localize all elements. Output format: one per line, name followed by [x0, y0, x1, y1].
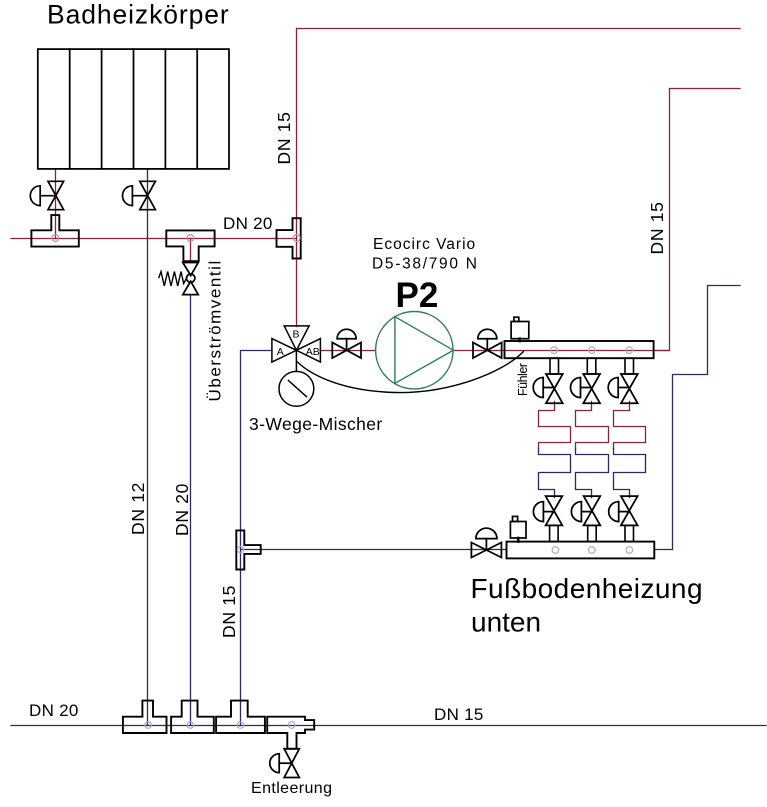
wire blue bottom DN15 horizontal — [11, 725, 766, 727]
svg-text:B: B — [293, 328, 300, 340]
valve upper loop 2 with dome — [571, 374, 601, 403]
wire blue mixer A feed with corner — [241, 351, 272, 726]
tee T4 DN15 with right stub — [236, 530, 260, 569]
valve upper loop 3 with dome — [608, 374, 638, 403]
svg-text:DN 15: DN 15 — [434, 705, 484, 724]
mixer actuator dial — [279, 371, 314, 406]
pipe stub lower manifold 2 — [588, 525, 597, 541]
valve drain Entleerung with dome — [270, 749, 299, 778]
pipe stub upper manifold 2 — [587, 358, 596, 374]
svg-text:DN 20: DN 20 — [172, 483, 192, 536]
valve upper loop 1 with dome — [533, 374, 563, 403]
wire red overflow stub — [190, 239, 192, 263]
valve pump line left with dome actuator — [332, 329, 361, 358]
pipe stub lower manifold 1 — [550, 525, 559, 541]
svg-text:Ecocirc Vario: Ecocirc Vario — [373, 236, 476, 253]
tee T6 bottom DN20 up stub — [171, 701, 214, 733]
mixer 3-Wege-Mischer — [272, 326, 321, 372]
wire blue radiator return drop DN12 — [147, 169, 149, 726]
wire blue tee to lower manifold — [241, 549, 507, 551]
wire heating loop 1 blue part — [539, 449, 571, 498]
svg-text:3-Wege-Mischer: 3-Wege-Mischer — [249, 414, 383, 434]
tee T8 drain with down stub and reducer — [267, 717, 314, 749]
pipe stub lower manifold 3 — [625, 525, 634, 541]
wire red pump to manifold — [453, 350, 669, 352]
pipe stub upper manifold 1 — [550, 358, 559, 374]
radiator Badheizkörper — [38, 49, 229, 169]
node T4 center — [237, 546, 243, 552]
svg-text:Entleerung: Entleerung — [251, 780, 332, 797]
tee T3 DN15 with left stub — [277, 218, 301, 258]
tee T2 DN20 with down stub — [166, 230, 214, 261]
svg-text:unten: unten — [471, 607, 541, 638]
svg-text:AB: AB — [306, 346, 320, 358]
wire blue right return path — [654, 286, 740, 550]
svg-text:Überströmventil: Überströmventil — [206, 259, 225, 401]
pump P2 impeller triangle — [395, 317, 453, 384]
wire heating loop 3 red part — [614, 401, 646, 448]
node manifold lower port 3 — [626, 547, 633, 554]
svg-text:DN 20: DN 20 — [223, 214, 273, 233]
sensor Fühler upper — [511, 317, 529, 341]
svg-text:DN 15: DN 15 — [647, 201, 667, 254]
valve overflow Überströmventil — [159, 263, 198, 295]
valve radiator supply — [30, 181, 63, 209]
node manifold lower port 2 — [589, 547, 596, 554]
wire red pump line mixer to pump — [320, 350, 375, 352]
svg-text:DN 12: DN 12 — [128, 482, 148, 535]
valve lower manifold inlet with dome — [471, 528, 501, 557]
node T8 center — [288, 722, 295, 729]
wire blue overflow valve drop DN20 — [190, 295, 192, 726]
svg-text:A: A — [277, 346, 284, 358]
pipe stub upper manifold 3 — [625, 358, 634, 374]
svg-text:D5-38/790 N: D5-38/790 N — [372, 256, 479, 273]
svg-text:DN 15: DN 15 — [219, 585, 239, 638]
valve lower loop 2 with dome — [571, 496, 600, 525]
node manifold upper port 2 — [589, 347, 596, 354]
capillary tube curve — [297, 352, 523, 393]
node manifold upper port 1 — [551, 347, 558, 354]
svg-text:P2: P2 — [396, 276, 439, 315]
wire red supply vertical DN15 — [296, 29, 298, 327]
node manifold upper port 3 — [626, 347, 633, 354]
svg-text:Fühler: Fühler — [516, 363, 530, 396]
valve radiator return — [122, 181, 155, 209]
wire red radiator drop — [55, 169, 57, 239]
node T5 center — [145, 722, 152, 729]
wire heating loop 1 red part — [539, 401, 571, 448]
wire red return right horizontal — [670, 88, 741, 90]
tee T7 bottom DN15 up stub — [216, 701, 265, 733]
node T2 center — [187, 235, 194, 242]
sensor Fühler lower — [510, 516, 526, 541]
wire heating loop 2 blue part — [576, 449, 609, 498]
node T1 center — [52, 235, 59, 242]
svg-text:Badheizkörper: Badheizkörper — [47, 0, 230, 30]
wire heating loop 2 red part — [576, 401, 609, 448]
valve lower loop 3 with dome — [609, 496, 638, 525]
wire red DN20 row horizontal — [11, 238, 297, 240]
svg-text:DN 20: DN 20 — [29, 701, 79, 720]
node T6 center — [187, 722, 194, 729]
node T7 center — [237, 722, 244, 729]
valve pump line right with dome actuator — [473, 329, 502, 358]
node T3 center — [293, 235, 300, 242]
wire red right vertical to manifold — [654, 89, 670, 351]
node manifold lower port 1 — [552, 547, 559, 554]
wire heating loop 3 blue part — [614, 449, 646, 498]
valve lower loop 1 with dome — [533, 496, 562, 525]
tee T5 bottom DN12 up stub — [123, 701, 167, 733]
svg-text:DN 15: DN 15 — [274, 111, 294, 164]
svg-text:Fußbodenheizung: Fußbodenheizung — [471, 573, 703, 604]
tee T1 DN20 with up stub — [31, 215, 78, 247]
manifold upper bar — [505, 341, 654, 358]
wire red supply top horizontal — [297, 28, 741, 30]
pump P2 circle — [376, 312, 453, 389]
manifold lower bar — [507, 542, 655, 559]
